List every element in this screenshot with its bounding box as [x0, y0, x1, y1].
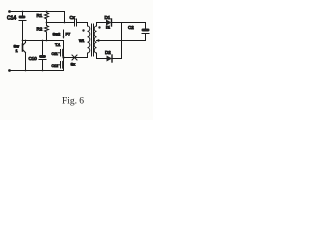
resistor R2 — [45, 26, 49, 41]
capacitor C10 — [39, 41, 46, 71]
svg-text:D1: D1 — [105, 15, 111, 20]
resistor R1 — [45, 12, 49, 26]
terminal dot top-left input — [8, 10, 11, 13]
svg-text:D2: D2 — [105, 50, 111, 55]
wire bottom rail — [10, 70, 64, 72]
capacitor C2 — [142, 23, 150, 41]
wire secondary top to D1 — [97, 22, 107, 24]
svg-text:R1: R1 — [37, 13, 43, 18]
node bus vertical — [63, 41, 65, 71]
node junction bus to Sx wire — [62, 56, 64, 58]
wire to spark gap — [64, 57, 88, 59]
current arrow annotation — [63, 30, 65, 39]
capacitor Cx — [75, 19, 88, 26]
node junction dots — [22, 11, 24, 13]
svg-text:C14: C14 — [7, 16, 16, 22]
wire secondary center tap — [97, 40, 146, 42]
wire from divider to Cx — [47, 22, 75, 24]
spark gap Sx — [72, 55, 77, 60]
wire middle rail — [23, 40, 64, 42]
svg-text:C11: C11 — [52, 52, 58, 56]
svg-text:W1: W1 — [79, 39, 84, 43]
wire D1 to output — [112, 22, 146, 24]
primary polarity dot — [82, 29, 84, 31]
terminal dot bottom-left input — [8, 69, 11, 72]
svg-text:Sx: Sx — [71, 62, 76, 67]
secondary polarity dot — [98, 26, 100, 28]
diode D2 — [107, 55, 113, 62]
diode D1 — [106, 19, 112, 26]
svg-text:R2: R2 — [37, 27, 43, 32]
svg-text:T.1: T.1 — [55, 42, 61, 47]
svg-text:Sw2: Sw2 — [53, 32, 62, 37]
wire D2 to riser — [112, 58, 122, 60]
svg-text:F7: F7 — [66, 32, 71, 37]
svg-text:C12: C12 — [52, 64, 59, 68]
transformer T1 primary winding W1 — [88, 23, 90, 58]
transformer core — [91, 24, 93, 56]
wire riser D2 node to D1 node — [121, 23, 123, 59]
transformer T1 secondary winding W2 — [94, 23, 96, 59]
capacitor C14 — [19, 12, 27, 45]
wire top rail — [10, 11, 65, 13]
svg-text:C10: C10 — [29, 56, 38, 61]
svg-text:D1: D1 — [106, 26, 110, 30]
node center tap junction dot — [97, 39, 99, 41]
wire top rail drop — [64, 12, 66, 23]
svg-text:C2: C2 — [128, 25, 134, 30]
wire secondary bottom to D2 — [97, 58, 107, 60]
transistor Sw1 — [23, 41, 26, 71]
svg-text:Fig.6: Fig.6 — [62, 97, 84, 107]
capacitor C12 on bus — [59, 62, 63, 69]
capacitor C11 on bus — [59, 50, 63, 57]
svg-text:Cx: Cx — [70, 15, 76, 20]
